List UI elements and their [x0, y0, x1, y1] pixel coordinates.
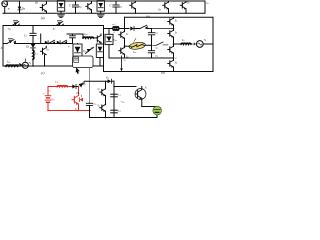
svg-text:Sac: Sac	[133, 51, 136, 54]
svg-text:Db: Db	[76, 92, 80, 95]
wire box c right vertical	[103, 26, 105, 72]
svg-text:D1: D1	[25, 45, 29, 49]
svg-text:(c): (c)	[41, 71, 45, 75]
red bottom wire	[48, 110, 90, 112]
inductor Lpv horizontal	[83, 34, 97, 38]
svg-text:Lf: Lf	[181, 39, 185, 42]
transistor leg f left lower	[100, 104, 106, 117]
svg-text:+: +	[113, 32, 115, 35]
gray drop line	[89, 68, 91, 104]
switch Sc3 left row	[3, 39, 16, 44]
wire transformer row	[104, 28, 114, 30]
svg-text:S1: S1	[145, 87, 147, 90]
svg-text:Do: Do	[105, 77, 109, 80]
capacitor Cf1 on rail	[111, 94, 118, 97]
svg-text:Db: Db	[21, 6, 26, 10]
svg-text:C: C	[109, 4, 112, 8]
transistor Q2	[86, 1, 92, 13]
svg-text:Sb: Sb	[75, 107, 78, 111]
capacitor Cdc1	[72, 1, 78, 13]
svg-text:D2: D2	[90, 47, 94, 50]
wire top bus circuit a/b	[5, 0, 205, 2]
transistor Q4	[163, 1, 169, 13]
red left edge	[47, 87, 49, 96]
svg-text:S2: S2	[126, 55, 128, 58]
switch Sc2 on top edge	[56, 21, 64, 26]
wire to battery	[142, 106, 157, 108]
svg-text:vg: vg	[204, 39, 206, 42]
capacitor Cd1	[148, 33, 154, 51]
top wire to mosfet	[114, 86, 136, 88]
capacitor Cdc2	[113, 1, 119, 13]
diode Db	[18, 1, 22, 13]
transistor Sd4 right leg 1	[168, 17, 174, 28]
bidirectional switch inside ellipse	[130, 38, 146, 47]
transformer T	[113, 26, 119, 31]
wire to inductor Lf	[174, 43, 182, 45]
red wire top	[48, 86, 57, 88]
svg-text:vo: vo	[206, 1, 208, 5]
diode Df	[108, 79, 112, 83]
svg-text:S1: S1	[8, 27, 11, 31]
svg-text:S2: S2	[53, 27, 56, 31]
boxed diode module Vpv	[73, 44, 82, 67]
wire box d top	[125, 16, 214, 18]
boxed diode module 1	[57, 1, 64, 14]
transistor Sd2 left leg top	[119, 31, 125, 47]
wire mid row c	[15, 43, 73, 45]
svg-text:iin: iin	[49, 89, 51, 92]
transistor Sd8 right leg 4	[168, 56, 174, 72]
capacitor Cf	[86, 103, 92, 117]
svg-text:+: +	[43, 93, 45, 96]
switch Sd7 horizontal	[153, 42, 168, 45]
arrow ig	[17, 64, 21, 66]
transistor Sd6 right leg 3	[168, 44, 174, 56]
diode Dd	[130, 26, 138, 30]
diode Dc	[31, 44, 36, 50]
rounded callout box	[73, 56, 94, 68]
svg-text:Vpv: Vpv	[83, 49, 87, 53]
wire vg stub	[24, 59, 26, 62]
yellow highlight ellipse	[129, 41, 146, 50]
svg-text:C2: C2	[118, 110, 121, 113]
svg-text:C1: C1	[155, 32, 158, 35]
switch Sd1	[138, 25, 152, 29]
svg-text:Lpv: Lpv	[83, 33, 88, 36]
cursor arrow	[76, 67, 80, 74]
svg-text:+vo: +vo	[121, 101, 125, 104]
svg-text:S7: S7	[175, 57, 177, 60]
svg-text:C2: C2	[155, 55, 158, 58]
svg-text:S1: S1	[126, 33, 128, 36]
svg-text:vpv: vpv	[119, 6, 122, 9]
transistor Q5	[180, 1, 186, 13]
bottom wire f	[90, 117, 158, 119]
switch Sc1 on top edge	[12, 21, 20, 26]
wire leg bottom to inner bottom	[124, 57, 126, 59]
svg-text:vg: vg	[29, 62, 31, 65]
inductor Lg horizontal on bottom rail	[6, 64, 18, 67]
ground under module 1	[58, 15, 65, 18]
wire ellipse right	[145, 44, 152, 46]
svg-text:(f): (f)	[35, 2, 38, 5]
svg-text:(g): (g)	[83, 83, 86, 86]
switch Sc6 diagonal	[86, 47, 94, 53]
boxed diode module Vpv2	[105, 29, 113, 59]
transistor Sd5 right leg 2	[168, 29, 174, 45]
svg-text:S1: S1	[98, 88, 100, 91]
svg-text:vo: vo	[124, 59, 126, 62]
svg-text:n:1: n:1	[112, 23, 115, 26]
wire box d left upper	[124, 17, 126, 30]
transistor leg f left	[100, 81, 106, 104]
wire box c bottom	[3, 65, 104, 67]
wire ellipse left	[125, 45, 130, 47]
transistor Qc	[97, 34, 102, 44]
wire right end vertical	[204, 1, 206, 13]
svg-text:S8: S8	[175, 61, 177, 64]
wire box d right	[212, 17, 214, 71]
svg-text:C: C	[69, 4, 72, 8]
svg-text:C1: C1	[24, 33, 27, 37]
svg-text:(a): (a)	[41, 16, 45, 20]
boxed diode module 4	[96, 44, 103, 66]
red battery Vin	[45, 95, 51, 97]
svg-text:C1: C1	[118, 94, 121, 97]
inductor Lc vertical	[32, 50, 35, 66]
wire box d bottom	[104, 71, 214, 73]
red inductor Lb	[57, 85, 67, 88]
wire box c left	[2, 26, 4, 67]
output arrow down	[120, 56, 123, 71]
node stub	[40, 34, 42, 44]
svg-text:vs: vs	[8, 7, 11, 11]
transistor Sc7	[41, 46, 47, 66]
mosfet Sf big	[135, 87, 146, 107]
svg-text:+: +	[66, 39, 68, 43]
transistor Q1	[40, 1, 47, 13]
svg-text:S2: S2	[98, 104, 100, 107]
boxed diode module 2	[97, 1, 104, 14]
svg-text:(d): (d)	[161, 71, 165, 75]
wire bottom rail circuit a/b	[3, 12, 205, 14]
switch Sc4	[45, 40, 55, 44]
capacitor Cf2 on rail	[111, 110, 118, 113]
svg-text:vpv: vpv	[79, 6, 82, 9]
arrow if	[192, 43, 196, 45]
svg-text:+: +	[68, 45, 70, 49]
svg-text:Sb: Sb	[158, 8, 161, 12]
junction dots	[32, 28, 174, 119]
svg-text:Lg: Lg	[6, 59, 10, 63]
capacitor Cc	[30, 26, 36, 44]
switch Sc5	[57, 40, 67, 44]
mid rail f	[113, 81, 115, 117]
inductor Lf	[181, 42, 191, 45]
AC source vs	[2, 1, 8, 13]
capacitor Cc2	[67, 34, 83, 44]
svg-text:Lb: Lb	[54, 80, 58, 84]
black diode pair after red coil	[72, 81, 85, 88]
capacitor Cd2	[148, 51, 154, 58]
ground under module 2	[97, 15, 104, 18]
svg-text:Vin: Vin	[51, 98, 55, 102]
AC source vo2	[196, 41, 213, 48]
svg-text:L1: L1	[34, 52, 38, 55]
AC source vg	[22, 62, 28, 68]
wire d inner bottom	[109, 57, 152, 59]
top wire f	[85, 80, 108, 82]
capacitor rail right	[151, 29, 153, 33]
svg-text:S6: S6	[175, 32, 177, 35]
transistor Sd3 left leg bottom	[119, 46, 125, 58]
svg-text:S5: S5	[175, 20, 177, 23]
svg-text:S7: S7	[156, 47, 159, 50]
transistor Q3	[130, 1, 136, 13]
svg-text:Co: Co	[94, 103, 97, 106]
red switch S	[78, 87, 80, 96]
wire box c top	[3, 25, 104, 27]
svg-text:S4: S4	[46, 49, 48, 52]
wire cap rail top to transistor leg	[152, 28, 174, 30]
red wire top 2	[67, 86, 72, 88]
svg-text:Vpv: Vpv	[113, 39, 117, 42]
svg-text:(b): (b)	[146, 15, 150, 19]
green battery	[152, 105, 163, 116]
